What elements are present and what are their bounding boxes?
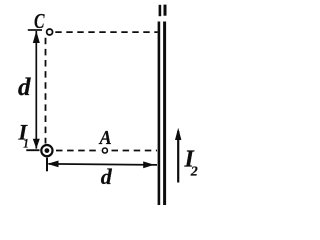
svg-text:1: 1 (23, 136, 29, 151)
arrowhead right (dimension d horizontal) (143, 161, 154, 168)
svg-text:2: 2 (190, 165, 198, 180)
tick at C level (28, 29, 42, 31)
dashed construction line from node C to wire W (55, 31, 157, 33)
wire W (conductor with current I2), upper break segment left (159, 5, 162, 16)
arrowhead up (dimension d vertical) (33, 31, 40, 43)
svg-text:d: d (18, 74, 31, 101)
current arrow I2 (177, 131, 179, 183)
arrowhead left (dimension d horizontal) (47, 161, 58, 168)
wire W upper break segment right (164, 5, 167, 16)
tick below I1 (46, 158, 48, 172)
wire W right line (163, 22, 166, 206)
vertical dimension line d (35, 31, 37, 149)
wire W left line (158, 22, 161, 206)
svg-text:A: A (98, 127, 112, 149)
tick at I1 level (26, 149, 39, 151)
node A (open circle) (100, 146, 109, 155)
dashed construction line from node C down to current I1 (45, 38, 47, 144)
svg-text:d: d (101, 164, 113, 189)
node C (open circle) (47, 29, 53, 35)
arrowhead down (dimension d vertical) (33, 139, 40, 149)
current I1 symbol (circle with dot, current out of page) (41, 145, 52, 156)
horizontal dimension line d (49, 164, 158, 165)
dashed construction line from I1 through node A to wire W (56, 150, 157, 152)
